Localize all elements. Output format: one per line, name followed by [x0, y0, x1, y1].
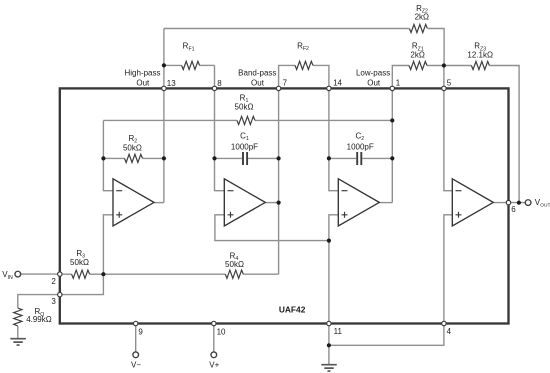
- wire RF2 loop pin7 to pin14: [279, 65, 295, 89]
- resistor RF2: [295, 61, 313, 69]
- pin 1 circle: [390, 86, 394, 90]
- pin 2 circle: [58, 272, 62, 276]
- wire C2 leads: [329, 157, 356, 159]
- op-amp U4: [452, 179, 493, 226]
- wire R3 leads pin2 to node A: [60, 273, 72, 275]
- svg-text:2: 2: [51, 277, 56, 286]
- pin 5 circle: [442, 86, 446, 90]
- pin 7 circle: [276, 86, 280, 90]
- wire pin14 vertical to U3 inverting input: [329, 88, 338, 191]
- svg-text:14: 14: [333, 79, 342, 88]
- wire pin9 to V- terminal: [135, 324, 137, 352]
- svg-text:2kΩ: 2kΩ: [415, 13, 429, 22]
- op-amp U4 plus input sign: [456, 212, 462, 218]
- IC UAF42 package outline: [60, 88, 509, 323]
- svg-text:6: 6: [511, 205, 516, 214]
- resistor R3: [72, 270, 90, 278]
- svg-text:High-pass: High-pass: [124, 68, 160, 77]
- wire RF1 leads pin13 to pin8: [164, 64, 182, 66]
- svg-text:50kΩ: 50kΩ: [70, 258, 89, 267]
- op-amp U1: [113, 179, 154, 226]
- node C2 left junction: [327, 156, 331, 160]
- wire RZ1 to RZ3 middle lead: [427, 65, 471, 67]
- capacitor C1: [243, 152, 247, 165]
- pin 13 circle: [162, 86, 166, 90]
- svg-text:12.1kΩ: 12.1kΩ: [467, 50, 493, 59]
- op-amp U3 minus input sign: [342, 190, 348, 192]
- svg-text:V−: V−: [131, 360, 141, 369]
- svg-text:1000pF: 1000pF: [347, 142, 374, 151]
- wire pin13 vertical (HP output node): [163, 29, 165, 203]
- resistor RZ2: [409, 24, 427, 32]
- wire U2 noninverting leg: [215, 215, 329, 241]
- wire U3 noninverting leg: [329, 215, 338, 241]
- svg-text:Low-pass: Low-pass: [356, 68, 390, 77]
- resistor RF1: [182, 61, 200, 69]
- op-amp U2 plus input sign: [228, 212, 234, 218]
- wire RZ1 left lead to pin1: [392, 66, 409, 88]
- wire R1 row: [103, 119, 237, 121]
- resistor RZ1: [409, 61, 427, 69]
- svg-text:50kΩ: 50kΩ: [235, 103, 254, 112]
- pin 9 circle: [134, 321, 138, 325]
- svg-text:8: 8: [217, 79, 222, 88]
- wire pin8 vertical to U2 inverting input: [215, 65, 225, 190]
- wire pin1 vertical (LP output node): [391, 88, 393, 203]
- resistor R4: [225, 270, 243, 278]
- svg-text:4: 4: [447, 327, 452, 336]
- wire HP node to RZ2 top run: [164, 28, 409, 30]
- op-amp U2 minus input sign: [228, 190, 234, 192]
- pin 10 circle: [212, 321, 216, 325]
- svg-text:7: 7: [283, 79, 288, 88]
- node R2 right junction: [162, 156, 166, 160]
- svg-text:Out: Out: [367, 78, 381, 87]
- svg-text:Band-pass: Band-pass: [238, 68, 276, 77]
- op-amp U2: [224, 179, 265, 226]
- wire RZ3 right lead down to output: [489, 66, 519, 203]
- svg-text:10: 10: [217, 328, 226, 337]
- pin 4 circle: [442, 321, 446, 325]
- wire op-amp U1 output stub: [154, 202, 164, 204]
- node VOUT junction: [517, 201, 521, 205]
- wire pin3 to RQ: [18, 295, 60, 308]
- pin 8 circle: [212, 86, 216, 90]
- node pin11-pin4 ground junction: [327, 343, 331, 347]
- pin 11 circle: [327, 321, 331, 325]
- node R2 left junction: [101, 156, 105, 160]
- resistor R2: [125, 154, 143, 162]
- svg-text:Out: Out: [136, 79, 150, 88]
- wire R4 leads node A to BP node: [103, 273, 225, 275]
- pin 3 circle: [58, 292, 62, 296]
- svg-text:2kΩ: 2kΩ: [410, 50, 424, 59]
- wire C1 leads: [215, 157, 243, 159]
- resistor RZ3: [471, 61, 489, 69]
- wire pin7 vertical (BP output node): [278, 87, 280, 274]
- wire U4 output to VOUT: [494, 202, 525, 204]
- svg-text:50kΩ: 50kΩ: [123, 143, 142, 152]
- resistor R1: [237, 116, 255, 124]
- node U2 output junction: [277, 201, 281, 205]
- svg-text:9: 9: [138, 328, 143, 337]
- svg-text:3: 3: [51, 297, 56, 306]
- wire op-amp U2 output stub: [265, 202, 278, 204]
- svg-text:4.99kΩ: 4.99kΩ: [26, 315, 52, 324]
- svg-text:5: 5: [447, 79, 452, 88]
- node C2 right junction: [390, 156, 394, 160]
- svg-text:UAF42: UAF42: [279, 305, 306, 315]
- pin 6 circle: [506, 200, 510, 204]
- svg-text:V+: V+: [209, 360, 219, 369]
- terminal VOUT: [525, 200, 531, 206]
- op-amp U1 minus input sign: [116, 190, 122, 192]
- op-amp U4 minus input sign: [456, 190, 462, 192]
- capacitor C2: [357, 152, 361, 165]
- wire pin10 to V+ terminal: [213, 324, 215, 352]
- ground at pin11: [321, 365, 337, 371]
- svg-text:11: 11: [334, 327, 343, 336]
- node RZ1-RZ2-RZ3 junction: [442, 63, 446, 67]
- wire R2 row with U1 inverting input: [103, 120, 113, 190]
- ground at RQ: [10, 339, 26, 345]
- node A summing junction: [101, 272, 105, 276]
- op-amp U3: [338, 179, 379, 226]
- terminal V- supply: [133, 352, 139, 358]
- op-amp U1 plus input sign: [116, 212, 122, 218]
- svg-text:50kΩ: 50kΩ: [225, 260, 244, 269]
- svg-text:1000pF: 1000pF: [231, 142, 258, 151]
- svg-text:13: 13: [167, 79, 176, 88]
- wire op-amp U3 output stub: [379, 202, 392, 204]
- terminal V+ supply: [211, 352, 217, 358]
- pin 14 circle: [327, 86, 331, 90]
- resistor RQ: [14, 308, 22, 326]
- terminal VIN: [15, 271, 21, 277]
- node R1 right junction: [390, 118, 394, 122]
- node C1 right junction: [277, 156, 281, 160]
- svg-text:1: 1: [396, 79, 401, 88]
- svg-text:Out: Out: [251, 79, 265, 88]
- wire VIN to pin2: [21, 273, 60, 275]
- node C1 left junction: [212, 156, 216, 160]
- wire pin5 vertical to U4 inverting input: [444, 66, 452, 191]
- node ground reference junction: [327, 239, 331, 243]
- wire ground trunk pin11: [328, 241, 330, 364]
- wire U1 noninverting leg to pin3: [60, 215, 113, 295]
- wire U4 noninverting leg to pin4 and ground link: [329, 215, 452, 345]
- op-amp U3 plus input sign: [342, 212, 348, 218]
- node RF1-pin13 junction: [162, 63, 166, 67]
